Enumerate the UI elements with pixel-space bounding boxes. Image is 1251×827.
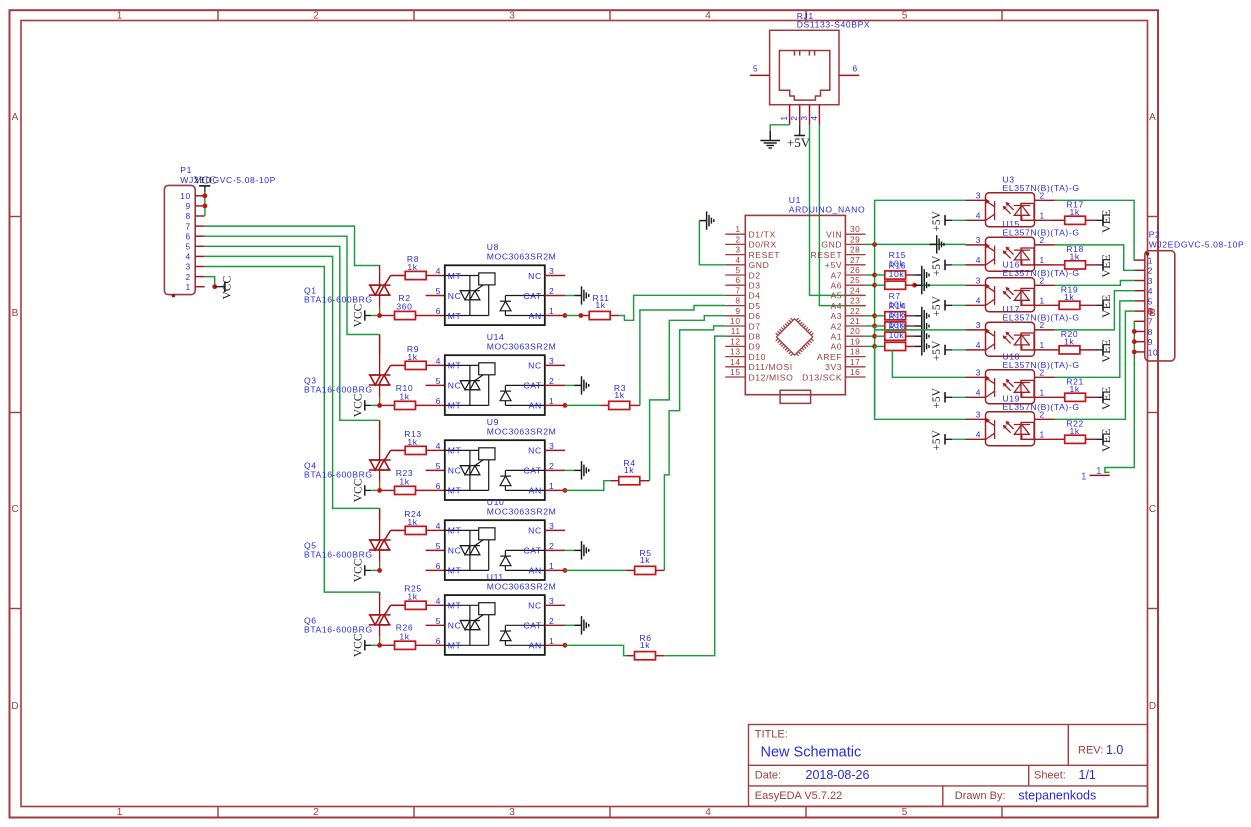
svg-text:A6: A6 [830, 281, 842, 291]
wire P1 pin7 to channel feeder [205, 226, 380, 265]
wire U1 GND pin4 to ground [699, 221, 725, 265]
svg-text:4: 4 [436, 356, 441, 366]
ground flag A6 [915, 276, 929, 294]
svg-text:6: 6 [436, 481, 441, 491]
wire arduino A3 to bus [866, 315, 875, 317]
svg-text:3: 3 [799, 115, 809, 120]
svg-text:Sheet:: Sheet: [1034, 770, 1066, 782]
U19 phototransistor [985, 417, 995, 439]
svg-text:U8: U8 [487, 242, 499, 252]
optocoupler U18 body [986, 370, 1035, 404]
P1 pin 2 [195, 276, 205, 278]
power flag VEE at U3 [1097, 210, 1114, 233]
resistor R11 [589, 311, 610, 319]
resistor R22 [1065, 435, 1086, 443]
power flag +5V at RJ1 pin2 [787, 125, 811, 150]
R3 left stub [600, 404, 609, 406]
wire RJ1 pin3 to arduino A5 [810, 125, 866, 296]
wire R10 to MOC pin6 [416, 404, 445, 406]
svg-text:19: 19 [850, 336, 860, 346]
svg-text:2018-08-26: 2018-08-26 [806, 768, 870, 782]
svg-text:1k: 1k [407, 517, 417, 527]
svg-text:D0/RX: D0/RX [749, 240, 777, 250]
svg-text:EasyEDA V5.7.22: EasyEDA V5.7.22 [755, 790, 842, 802]
power flag VCC at P1 pin1 [215, 276, 234, 300]
resistor R25 [405, 601, 426, 609]
U14 internal diode [500, 385, 545, 405]
svg-text:D4: D4 [749, 291, 761, 301]
svg-text:2: 2 [549, 376, 554, 386]
power flag VCC channel Q1 [353, 303, 372, 327]
svg-text:3: 3 [549, 441, 554, 451]
svg-text:AN: AN [529, 401, 542, 411]
wire U14 AN to R3 [566, 404, 601, 406]
svg-text:U10: U10 [487, 497, 505, 507]
junction bus A2 [872, 324, 877, 329]
resistor pull R14 [885, 322, 906, 330]
svg-text:1: 1 [1040, 340, 1045, 350]
svg-text:3: 3 [186, 262, 191, 272]
svg-text:5: 5 [436, 616, 441, 626]
svg-text:2: 2 [549, 286, 554, 296]
ground flag at U10 CAT [574, 541, 588, 559]
U8 pin names [448, 271, 542, 321]
svg-text:6: 6 [436, 561, 441, 571]
optocoupler U3 body [986, 193, 1035, 227]
svg-text:1: 1 [549, 636, 554, 646]
optocoupler U19 body [986, 412, 1035, 446]
svg-text:A1: A1 [830, 332, 842, 342]
wire CAT to ground U9 [565, 469, 574, 471]
wire feeder drop to Q3 [379, 335, 381, 356]
U17 pin4 stub [966, 349, 986, 351]
svg-text:29: 29 [850, 234, 860, 244]
resistor pull R7 [885, 312, 906, 320]
svg-text:VIN: VIN [826, 230, 842, 240]
MOC pin5 stub U8 [426, 295, 445, 297]
svg-text:1.0: 1.0 [1106, 743, 1123, 757]
U14 internal triac circuit [445, 363, 495, 406]
svg-text:8: 8 [1148, 327, 1153, 337]
svg-text:2: 2 [1040, 190, 1045, 200]
wire U18 pin3 branch [892, 350, 965, 378]
svg-text:MOC3063SR2M: MOC3063SR2M [487, 506, 557, 516]
svg-text:3: 3 [976, 275, 981, 285]
stub bus to resistor A6 [875, 284, 885, 286]
MOC pin6 stub U10 [426, 569, 445, 571]
power flag VCC channel Q4 [353, 478, 372, 502]
R5 right stub [656, 569, 665, 571]
svg-text:1k: 1k [407, 592, 417, 602]
svg-text:3V3: 3V3 [825, 362, 842, 372]
P2 pin 4 [1135, 290, 1145, 292]
R5 left stub [626, 569, 635, 571]
ground flag at U9 CAT [574, 461, 588, 479]
svg-text:4: 4 [436, 266, 441, 276]
MOC pin5 stub U10 [426, 549, 445, 551]
resistor pull R15 [885, 271, 906, 279]
U8 pin3 NC stub [545, 275, 565, 277]
svg-text:NC: NC [448, 546, 462, 556]
U11 pin3 NC stub [545, 604, 565, 606]
svg-text:4: 4 [976, 295, 981, 305]
svg-text:2: 2 [186, 272, 191, 282]
svg-text:1: 1 [735, 224, 740, 234]
power flag VCC channel Q6 [353, 633, 372, 657]
svg-text:AN: AN [529, 311, 542, 321]
svg-text:3: 3 [509, 807, 515, 818]
svg-text:24: 24 [850, 285, 860, 295]
RJ1 pin 4 [818, 105, 820, 125]
optocoupler U10 body [445, 520, 545, 580]
svg-text:RESET: RESET [811, 250, 843, 260]
svg-text:1k: 1k [399, 476, 409, 486]
U15 phototransistor [985, 243, 995, 265]
resistor pull R16 [885, 281, 906, 289]
svg-text:5: 5 [436, 461, 441, 471]
svg-text:VEE: VEE [1099, 295, 1113, 318]
svg-text:CAT: CAT [523, 621, 541, 631]
R11 left stub [581, 315, 589, 317]
resistor R23 [395, 486, 416, 494]
wire VCC to junction Q1 [371, 315, 380, 317]
wire feeder drop to Q4 [379, 420, 381, 440]
U3 pin3 stub [966, 199, 986, 201]
U16 led diode [1014, 288, 1035, 305]
wire P2 pin8 stub link [1133, 331, 1135, 333]
resistor A7 out stub [906, 274, 915, 276]
U14 pin names [448, 361, 542, 411]
junction U14 AN [563, 403, 568, 408]
wire U10 AN to R5 [564, 569, 626, 571]
svg-text:D2: D2 [749, 270, 761, 280]
R19 left stub [1055, 304, 1060, 306]
svg-text:+5V: +5V [931, 210, 943, 231]
U8 internal diode [500, 296, 545, 316]
svg-text:20: 20 [850, 326, 860, 336]
svg-text:1: 1 [1148, 256, 1153, 266]
U14 pin3 NC stub [545, 364, 565, 366]
wire U1 GND pin29 net [866, 243, 966, 245]
wire R5 to arduino D7 [664, 326, 725, 571]
svg-text:4: 4 [1148, 286, 1153, 296]
U8 pin numbers [436, 266, 555, 316]
U17 pin3 stub [966, 329, 986, 331]
R3 right stub [630, 404, 640, 406]
U16 phototransistor [985, 283, 995, 305]
U15 pin3 stub [966, 244, 986, 246]
wire U17 pin3 to bus [875, 326, 966, 330]
svg-text:1: 1 [549, 396, 554, 406]
U9 pin3 NC stub [545, 449, 565, 451]
R6 right stub [656, 655, 665, 657]
svg-text:VCC: VCC [353, 478, 365, 502]
svg-text:MT: MT [448, 641, 462, 651]
resistor R3 [609, 401, 630, 409]
wire VCC to junction Q3 [371, 404, 380, 406]
ground flag A7 [915, 266, 929, 284]
svg-text:NC: NC [528, 446, 542, 456]
svg-text:BTA16-600BRG: BTA16-600BRG [304, 295, 373, 305]
ground flag at RJ1 pin1 [760, 131, 780, 148]
U3 phototransistor [985, 198, 995, 220]
MOC pin5 stub U9 [426, 469, 445, 471]
svg-text:4: 4 [976, 340, 981, 350]
junction Q3 VCC node [377, 403, 382, 408]
junction bus A3 [872, 313, 877, 318]
svg-text:B: B [1148, 307, 1155, 317]
resistor R17 [1065, 216, 1086, 224]
U18 pin1 stub [1035, 396, 1055, 398]
R21 right stub [1086, 396, 1097, 398]
svg-text:MT: MT [448, 566, 462, 576]
svg-text:1: 1 [1040, 255, 1045, 265]
wire A6 to U16 pin3 [915, 284, 966, 286]
U18 led arrows [1003, 379, 1014, 391]
svg-text:D13/SCK: D13/SCK [802, 372, 842, 382]
svg-text:MOC3063SR2M: MOC3063SR2M [487, 252, 557, 262]
U1 right pin names [802, 230, 842, 383]
svg-text:+5V: +5V [931, 340, 943, 361]
wire U19 pin3 branch [875, 346, 966, 419]
R18 left stub [1055, 264, 1065, 266]
svg-text:1: 1 [1040, 387, 1045, 397]
P2 pin 7 [1135, 320, 1145, 322]
U14 pin2 CAT stub [545, 384, 565, 386]
svg-text:10k: 10k [889, 330, 905, 340]
power flag +5V at U19 [931, 429, 966, 450]
svg-text:D5: D5 [749, 301, 761, 311]
svg-text:5: 5 [753, 64, 758, 74]
svg-text:A5: A5 [830, 291, 842, 301]
svg-text:VCC: VCC [222, 276, 234, 300]
wire arduino A2 to bus [866, 325, 875, 327]
resistor A6 out stub [906, 284, 915, 286]
wire R6 to arduino D8 [664, 336, 725, 656]
svg-text:3: 3 [976, 320, 981, 330]
MOC pin5 stub U11 [426, 624, 445, 626]
svg-text:D10: D10 [749, 352, 767, 362]
U16 pin2 stub [1035, 284, 1055, 286]
U9 internal triac circuit [445, 448, 495, 491]
junction P1 pin9 [203, 204, 208, 209]
svg-text:B: B [12, 308, 19, 319]
U14 pin1 AN stub [545, 404, 565, 406]
U15 led arrows [1003, 247, 1014, 259]
U19 pin3 stub [966, 418, 986, 420]
resistor A1 out stub [906, 335, 915, 337]
svg-text:CAT: CAT [523, 546, 541, 556]
transistor Q3 triac [369, 335, 405, 397]
svg-text:D11/MOSI: D11/MOSI [749, 362, 793, 372]
svg-text:AN: AN [529, 566, 542, 576]
P2 pin 10 [1135, 351, 1145, 353]
svg-text:CAT: CAT [523, 466, 541, 476]
resistor R18 [1065, 261, 1086, 269]
svg-text:3: 3 [509, 11, 515, 22]
U15 led diode [1014, 248, 1035, 265]
U18 pin3 stub [966, 376, 986, 378]
ground flag at GND net [930, 235, 944, 253]
junction U10 AN [563, 568, 568, 573]
P1 pin 9 [195, 205, 205, 207]
R6 left stub [627, 655, 635, 657]
wire P2 pin9 stub link [1133, 341, 1135, 343]
U9 pin names [448, 446, 542, 496]
svg-text:D: D [11, 701, 18, 712]
P2 pin 8 [1135, 331, 1145, 333]
U10 internal triac circuit [445, 528, 495, 571]
R4 right stub [640, 480, 650, 482]
P2 pin 2 [1135, 269, 1145, 271]
wire GND bus vertical [874, 244, 876, 415]
svg-text:BTA16-600BRG: BTA16-600BRG [304, 385, 373, 395]
svg-text:A0: A0 [830, 342, 842, 352]
power flag +5V at U3 [931, 210, 966, 231]
svg-text:4: 4 [976, 255, 981, 265]
svg-text:VEE: VEE [1099, 387, 1113, 410]
U3 pin1 stub [1035, 219, 1055, 221]
ground flag A0 [915, 337, 929, 355]
power flag VCC channel Q3 [353, 393, 372, 417]
wire U17 pin2 to P2 pin4 [1055, 291, 1135, 330]
wire R11 to arduino D4 [619, 295, 725, 320]
svg-text:5: 5 [436, 541, 441, 551]
R4 left stub [610, 480, 619, 482]
svg-text:28: 28 [850, 245, 860, 255]
wire arduino A1 to bus [866, 335, 875, 337]
svg-text:1k: 1k [624, 465, 634, 475]
svg-text:3: 3 [976, 367, 981, 377]
svg-text:MT: MT [448, 311, 462, 321]
U16 pin4 stub [966, 304, 986, 306]
svg-text:BTA16-600BRG: BTA16-600BRG [304, 550, 373, 560]
wire P1 pin6 to channel feeder [205, 236, 380, 334]
svg-text:4: 4 [735, 255, 740, 265]
wire U11 AN to R6 [564, 645, 626, 655]
junction P2 pin9 [1132, 339, 1137, 344]
svg-text:3: 3 [735, 245, 740, 255]
junction bus A0 [872, 344, 877, 349]
wire junction to R10 [380, 404, 395, 406]
svg-text:21: 21 [850, 316, 860, 326]
svg-text:MT: MT [448, 401, 462, 411]
junction bus A6 [872, 283, 877, 288]
wire P1 pin5 to channel feeder [205, 246, 380, 420]
RJ1 pin 2 [799, 105, 801, 125]
U11 pin2 CAT stub [545, 624, 565, 626]
power flag VCC channel Q5 [353, 558, 372, 582]
svg-text:1k: 1k [407, 437, 417, 447]
power flag +5V at U17 [931, 340, 966, 361]
svg-text:4: 4 [186, 252, 191, 262]
svg-text:1: 1 [1081, 471, 1087, 482]
R18 right stub [1086, 264, 1097, 266]
wire junction to R2 [380, 315, 395, 317]
svg-text:AN: AN [529, 641, 542, 651]
svg-text:ARDUINO_NANO: ARDUINO_NANO [789, 204, 865, 214]
optocoupler U16 body [986, 278, 1035, 312]
resistor pull R13 [885, 342, 906, 350]
junction bus A7 [872, 273, 877, 278]
U11 pin1 AN stub [545, 644, 565, 646]
wire U3 pin2 to P2 pin1 [1055, 200, 1135, 260]
svg-text:U14: U14 [487, 332, 505, 342]
svg-text:NC: NC [528, 361, 542, 371]
svg-text:+5V: +5V [825, 260, 842, 270]
svg-text:REV:: REV: [1078, 745, 1103, 757]
stub bus to resistor A0 [875, 345, 885, 347]
R19 right stub [1080, 304, 1097, 306]
wire VCC to junction Q5 [371, 569, 380, 571]
U16 pin1 stub [1035, 304, 1055, 306]
svg-text:7: 7 [1148, 317, 1153, 327]
svg-text:4: 4 [976, 210, 981, 220]
svg-text:2: 2 [1040, 367, 1045, 377]
svg-text:A7: A7 [830, 270, 842, 280]
wire CAT to ground U11 [565, 624, 574, 626]
wire junction to R23 [380, 489, 395, 491]
svg-text:VEE: VEE [1099, 210, 1113, 233]
svg-text:DS1133-S40BPX: DS1133-S40BPX [797, 20, 871, 30]
svg-text:BTA16-600BRG: BTA16-600BRG [304, 470, 373, 480]
svg-text:NC: NC [448, 291, 462, 301]
U16 pin3 stub [966, 284, 986, 286]
svg-text:10: 10 [1148, 347, 1159, 357]
resistor R2 [395, 311, 416, 319]
U9 internal diode [500, 470, 545, 490]
U17 pin1 stub [1035, 349, 1055, 351]
svg-text:MT: MT [448, 271, 462, 281]
stub bus to resistor A7 [875, 274, 885, 276]
svg-text:CAT: CAT [523, 291, 541, 301]
svg-text:1k: 1k [407, 262, 417, 272]
svg-text:+5V: +5V [931, 429, 943, 450]
resistor A3 out stub [906, 315, 915, 317]
svg-text:6: 6 [735, 275, 740, 285]
svg-text:27: 27 [850, 255, 860, 265]
wire feeder drop to Q5 [379, 508, 381, 520]
U11 pin names [448, 601, 542, 651]
svg-text:30: 30 [850, 224, 860, 234]
junction GND bus top [872, 242, 877, 247]
junction P2 pin8 [1132, 329, 1137, 334]
wire U19 pin2 to P2 pin6 [1055, 311, 1135, 419]
svg-text:A: A [12, 112, 19, 123]
resistor R26 [395, 641, 416, 649]
U9 pin1 AN stub [545, 489, 565, 491]
U10 pin numbers [436, 521, 555, 571]
R20 right stub [1080, 349, 1097, 351]
svg-text:New Schematic: New Schematic [761, 745, 862, 761]
wire R25 to MOC pin4 [426, 604, 445, 606]
svg-text:2: 2 [1040, 235, 1045, 245]
junction P1 pin10 [203, 193, 208, 198]
svg-text:MOC3063SR2M: MOC3063SR2M [487, 341, 557, 351]
svg-text:P2: P2 [1149, 230, 1161, 240]
svg-text:D9: D9 [749, 342, 761, 352]
U3 led diode [1014, 203, 1035, 220]
connector P1 body [164, 185, 195, 294]
svg-text:P1: P1 [180, 165, 192, 175]
junction Q4 VCC node [377, 488, 382, 493]
wire arduino A7 to bus [866, 274, 875, 276]
ground flag at U8 CAT [574, 286, 588, 304]
svg-text:NC: NC [528, 271, 542, 281]
svg-text:D3: D3 [749, 281, 761, 291]
resistor R6 [635, 652, 656, 660]
svg-text:MOC3063SR2M: MOC3063SR2M [487, 426, 557, 436]
